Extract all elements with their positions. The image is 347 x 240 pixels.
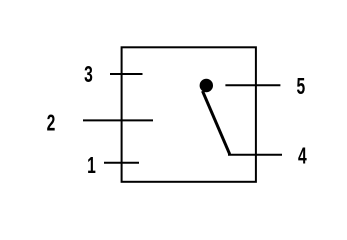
svg-text:2: 2 <box>47 111 56 137</box>
switch lever wire <box>203 91 230 154</box>
svg-text:1: 1 <box>87 153 96 179</box>
pin 4 lead <box>228 154 282 156</box>
switch body S1 <box>122 47 256 182</box>
switch pole dot <box>200 79 213 92</box>
pin 5 lead <box>225 84 280 86</box>
pin 2 lead <box>83 119 153 121</box>
pin 1 lead <box>104 162 139 164</box>
svg-text:3: 3 <box>84 62 93 88</box>
svg-text:5: 5 <box>296 74 305 100</box>
svg-text:4: 4 <box>298 144 307 170</box>
pin 3 lead <box>110 73 143 75</box>
